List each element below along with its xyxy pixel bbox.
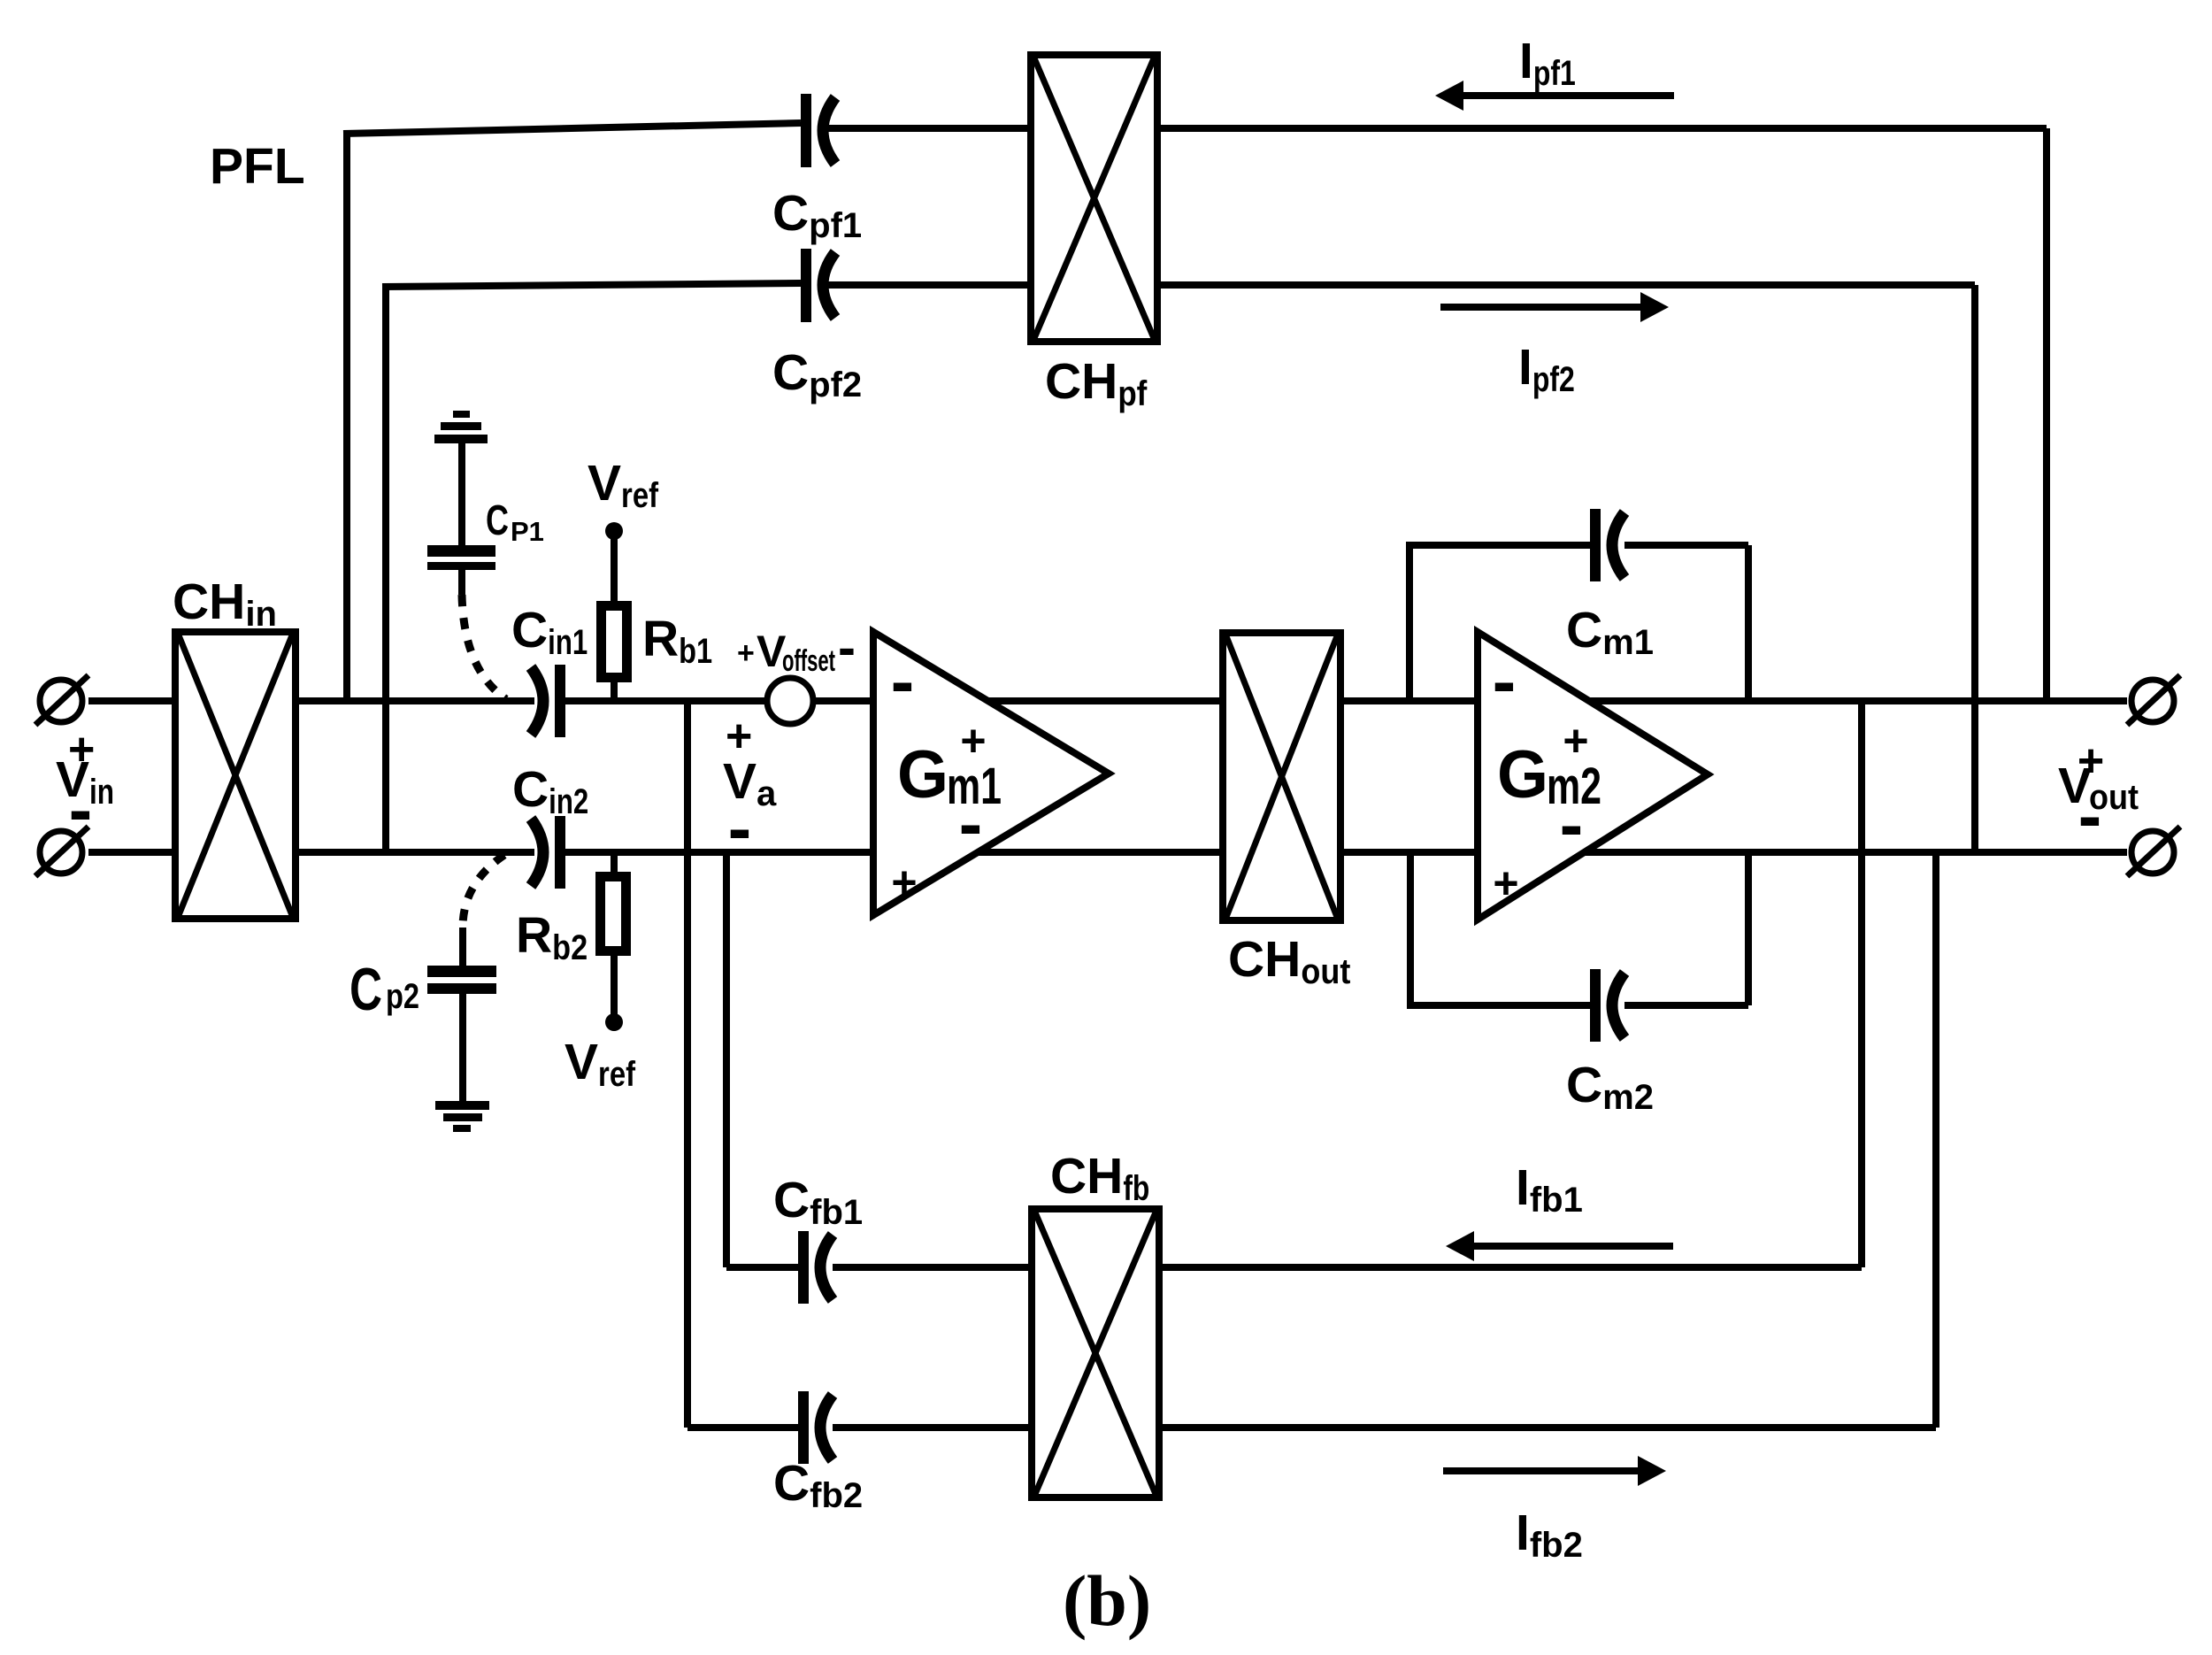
svg-text:+: + — [1563, 716, 1588, 766]
svg-text:+: + — [737, 636, 755, 670]
chopper CHout — [1223, 633, 1340, 920]
svg-text:offset: offset — [782, 644, 835, 678]
wire bottom main V- rail — [88, 849, 2127, 856]
resistor Rb2 — [595, 852, 631, 1015]
svg-text:C: C — [486, 497, 509, 544]
wire Ifb2 horizontal — [687, 1424, 1936, 1431]
svg-text:-: - — [728, 789, 752, 867]
svg-text:-: - — [69, 770, 93, 849]
arrow Ifb2 — [1443, 1456, 1666, 1486]
wire PFL top line 1 — [343, 123, 2047, 134]
wire PFL line 2 — [382, 283, 1975, 287]
arrow Ifb1 — [1446, 1231, 1673, 1261]
wire Cm1 loop — [1406, 545, 1748, 701]
arrow Ipf1 — [1435, 81, 1674, 111]
svg-text:G: G — [897, 737, 949, 812]
wire Ifb1 vertical from V+ rail — [1858, 701, 1865, 1267]
capacitor Cfb1 — [798, 1231, 833, 1304]
resistor Rb1 — [596, 601, 632, 701]
wire Ifb1 horizontal — [726, 1264, 1862, 1271]
capacitor Cp1 — [427, 443, 495, 595]
svg-text:-: - — [2078, 776, 2102, 855]
arrow Ipf2 — [1440, 292, 1669, 322]
svg-text:+: + — [891, 858, 917, 907]
op-amp Gm2 — [1478, 632, 1708, 920]
svg-text:G: G — [1497, 737, 1548, 812]
capacitor Cp2 — [427, 928, 496, 1101]
wire PFL left vertical 2 — [382, 283, 389, 852]
svg-text:p2: p2 — [386, 977, 419, 1016]
node Va verticals to feedback — [684, 701, 691, 1428]
terminal input + — [35, 675, 88, 725]
svg-text:+: + — [960, 716, 986, 766]
svg-text:P1: P1 — [511, 516, 544, 547]
wire PFL right vertical 2 — [1971, 285, 1978, 852]
capacitor Cin1 — [531, 665, 565, 737]
wire Cm2 loop — [1407, 852, 1748, 1005]
wire dashed from bottom rail to Cp2 — [463, 855, 504, 928]
svg-text:PFL: PFL — [210, 138, 305, 195]
label Va — [723, 711, 777, 867]
svg-text:-: - — [1493, 642, 1517, 720]
capacitor Cpf2 — [801, 249, 835, 322]
capacitor Cpf1 — [801, 94, 835, 167]
chopper CHin — [175, 632, 296, 919]
terminal output + — [2127, 675, 2180, 725]
wire PFL right vertical 1 — [2043, 128, 2050, 701]
svg-text:-: - — [1560, 785, 1584, 864]
wire PFL left vertical 1 — [343, 130, 350, 701]
node Vref top terminal — [605, 522, 623, 601]
ground (top, flipped) above Cp1 — [434, 411, 488, 443]
label Gm2 — [1493, 642, 1601, 908]
wire Ifb2 vertical from V- rail — [1932, 852, 1939, 1428]
chopper CHpf — [1031, 55, 1157, 342]
capacitor Cm1 — [1590, 509, 1624, 581]
svg-text:+: + — [1493, 858, 1518, 908]
label Vout — [2058, 735, 2139, 855]
label Vin — [56, 724, 114, 849]
svg-text:C: C — [349, 956, 382, 1023]
svg-text:(b): (b) — [1063, 1560, 1151, 1641]
node Vref bottom terminal — [605, 1013, 623, 1031]
terminal input - — [35, 827, 88, 876]
op-amp Gm1 — [873, 632, 1109, 915]
chopper CHfb — [1032, 1209, 1159, 1497]
capacitor Cm2 — [1590, 969, 1624, 1042]
svg-text:-: - — [959, 784, 983, 863]
ground below Cp2 — [435, 1101, 489, 1132]
svg-text:-: - — [838, 618, 856, 677]
label +Voffset- — [737, 618, 856, 678]
source Voffset circle — [767, 678, 813, 724]
label Gm1 — [891, 642, 1002, 907]
wire top main V+ rail — [88, 697, 2127, 704]
wire dashed from Cp1 to top rail — [462, 595, 506, 699]
svg-text:-: - — [891, 642, 915, 720]
terminal output - — [2127, 827, 2180, 876]
capacitor Cfb2 — [798, 1391, 833, 1464]
capacitor Cin2 — [531, 816, 565, 889]
